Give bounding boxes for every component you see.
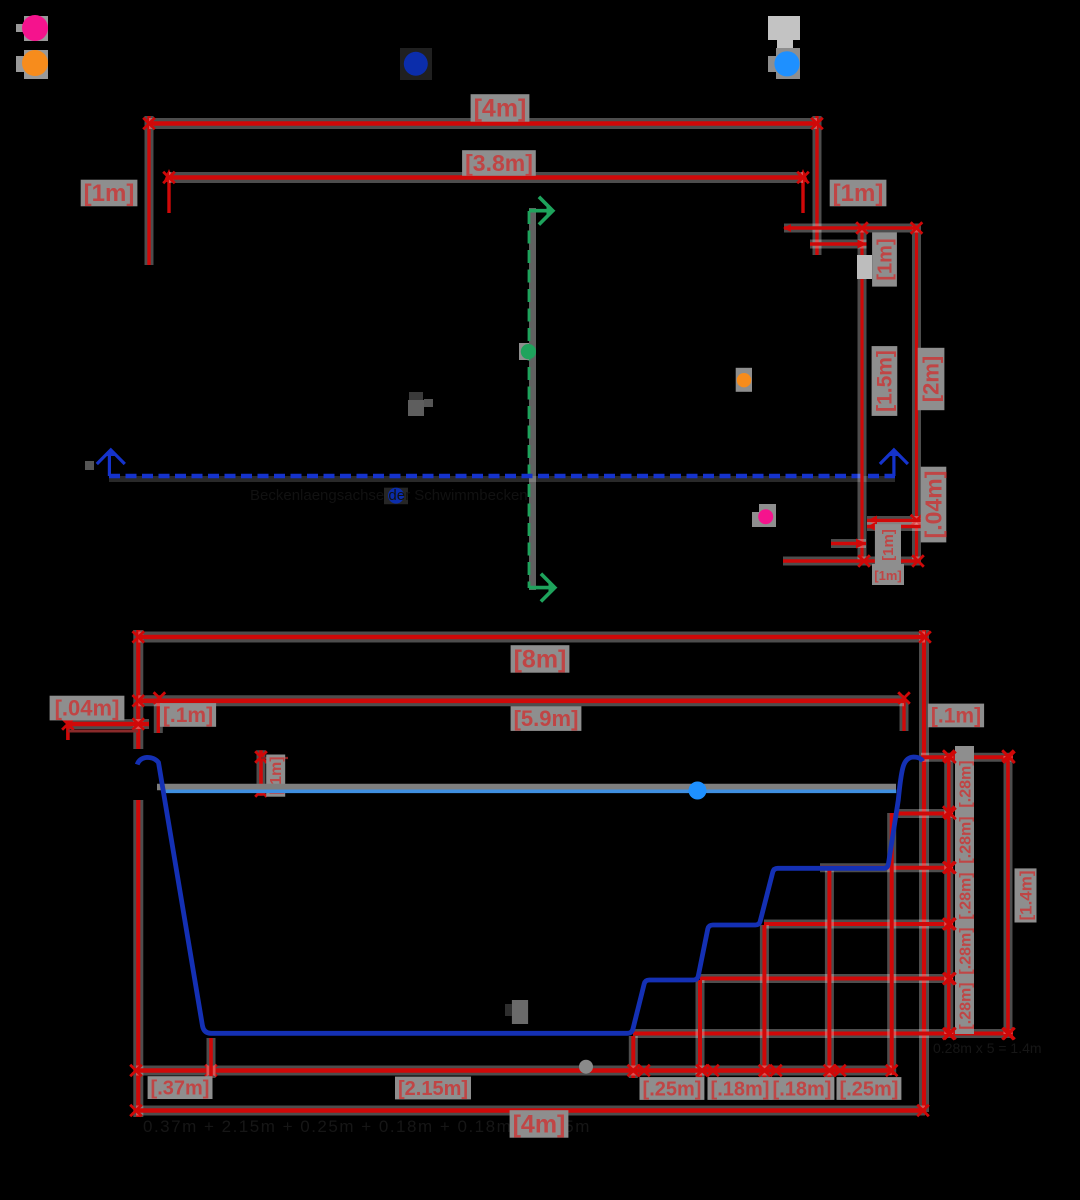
grid horizontal y=868 (tread 3) <box>820 863 953 872</box>
section dimension line [5.9m] y=700 <box>138 695 904 706</box>
grid horizontal y=1033 (floor level) <box>633 1029 1013 1038</box>
green node marker background <box>519 343 529 360</box>
orange point dot <box>737 373 751 387</box>
freeboard dim line x=261 <box>257 750 266 795</box>
gray anchor icon (plan) <box>408 392 433 416</box>
plan extension tick left inner x=169 with up arrow <box>164 169 175 213</box>
svg-text:[1m]: [1m] <box>880 529 897 561</box>
svg-text:[3.8m]: [3.8m] <box>465 150 533 176</box>
label [1m] plan left <box>81 180 138 208</box>
plan right dim line x=916 <box>912 226 921 562</box>
green section arrow top (points right) <box>529 197 556 225</box>
section short extension x=904 <box>900 700 909 731</box>
blue section arrow left (points up) <box>85 448 125 476</box>
svg-text:[.25m]: [.25m] <box>840 1078 899 1100</box>
svg-text:[8m]: [8m] <box>514 646 567 674</box>
water dot <box>689 782 707 800</box>
plan right horizontal y=526 <box>867 522 930 531</box>
bottom overall dimension line y=1110 <box>136 1106 925 1116</box>
arrows of [4m] <box>143 118 823 130</box>
small tick y=758 <box>261 757 288 759</box>
green centerline casing <box>529 208 536 590</box>
svg-text:[.28m]: [.28m] <box>958 816 975 863</box>
svg-text:[5.9m]: [5.9m] <box>514 706 579 731</box>
section extension left x=138 upper part <box>133 630 143 749</box>
grid horizontal y=757 (pool top level) <box>921 753 1013 762</box>
arrows y=228 <box>856 222 922 234</box>
grid vertical x=764 <box>760 925 769 1078</box>
label [1m] plan right <box>830 180 887 208</box>
small label box below y=561 <box>872 564 904 585</box>
label [.04m] section left <box>50 696 125 721</box>
svg-text:[.28m]: [.28m] <box>958 872 975 919</box>
rotated label [1m] plan right upper <box>872 232 897 286</box>
label [.25m] a <box>640 1077 705 1100</box>
green centerline dashed x=529 <box>528 211 531 588</box>
svg-text:[2m]: [2m] <box>919 356 944 402</box>
rotated label [.1m] freeboard <box>266 755 285 797</box>
leader line [.04m] y=724 <box>68 719 149 729</box>
section dimension line [8m] y=637 <box>138 632 925 643</box>
blue node dot (pool axis) <box>388 488 404 504</box>
label [.18m] b <box>770 1077 835 1100</box>
left arrow y=526 <box>867 522 877 532</box>
freeboard arrows <box>255 751 267 797</box>
legend water marker (light rect + blue dot) <box>768 16 800 79</box>
label [3.8m] <box>462 150 536 176</box>
svg-text:[1.4m]: [1.4m] <box>1016 870 1035 920</box>
small left arrow y=228 <box>783 224 791 232</box>
left arrow y=520 <box>867 516 877 526</box>
plan dimension line [4m] y=123 <box>149 118 817 129</box>
svg-text:[1m]: [1m] <box>874 568 901 583</box>
rotated label [1m] plan lower <box>875 524 901 566</box>
total height dim line x=1008 <box>1004 756 1013 1034</box>
svg-text:[.25m]: [.25m] <box>643 1078 702 1100</box>
rotated label [1.4m] total depth <box>1015 868 1037 922</box>
arrows on x=1008 <box>1002 750 1014 1039</box>
rotated label [.04m] plan <box>920 467 946 543</box>
svg-text:[.1m]: [.1m] <box>163 704 213 727</box>
svg-text:[.04m]: [.04m] <box>55 696 120 721</box>
thin second leader y=731 <box>68 730 138 733</box>
grid horizontal y=924 (tread 2) <box>764 920 953 929</box>
svg-text:[.18m]: [.18m] <box>773 1078 832 1100</box>
label [.1m] section left <box>160 703 216 727</box>
green section arrow bottom (points right) <box>529 574 558 602</box>
svg-text:[.28m]: [.28m] <box>958 982 975 1029</box>
svg-text:[4m]: [4m] <box>513 1111 566 1139</box>
plan extension tick right inner x=803 with up arrow <box>798 169 809 213</box>
svg-text:[2.15m]: [2.15m] <box>398 1078 468 1100</box>
label [5.9m] <box>511 706 582 731</box>
grid vertical x=829 <box>825 868 834 1078</box>
svg-text:[4m]: [4m] <box>474 95 527 123</box>
arrows of [5.9m] <box>133 692 910 706</box>
stacked rotated labels [.28m] background column <box>955 746 974 1034</box>
plan extension line left outer x=149 <box>145 116 154 265</box>
gray icon (section) <box>505 1000 528 1024</box>
bottom overall arrows <box>130 1105 929 1117</box>
chain arrows <box>130 1065 897 1077</box>
blue node marker background <box>384 488 408 505</box>
right arrow y=543 <box>856 539 866 549</box>
blue centerline casing <box>109 476 895 482</box>
blue centerline dashed y=476 <box>109 474 895 479</box>
svg-text:[.04m]: [.04m] <box>920 471 946 539</box>
left stem of [.04m] leader <box>66 714 70 740</box>
label [8m] <box>511 645 570 673</box>
pink point marker background <box>759 504 776 527</box>
rotated label [1.5m] <box>872 346 898 416</box>
rotated label [2m] <box>918 348 945 410</box>
green node dot <box>521 344 536 359</box>
legend orange marker <box>16 50 48 79</box>
svg-text:[1.5m]: [1.5m] <box>874 350 897 412</box>
plan extension line right outer x=817 <box>813 116 822 255</box>
blue section arrow right (points up) <box>880 448 908 476</box>
arrow x=916 y=520 <box>911 515 923 527</box>
small light box near x=862 <box>857 255 872 279</box>
plan right dim line x=862 <box>858 228 867 561</box>
grid horizontal y=813 <box>895 809 953 818</box>
svg-text:Beckenlaengsachse der Schwimmb: Beckenlaengsachse der Schwimmbecken <box>250 487 528 504</box>
label [.25m] b <box>837 1077 902 1100</box>
label [4m] bottom <box>510 1110 569 1138</box>
grid horizontal y=978 (tread 1) <box>700 974 953 983</box>
plan dimension line [3.8m] y=177 <box>169 172 803 183</box>
label [.18m] a <box>708 1077 773 1100</box>
arrows on x=949 <box>943 750 955 1039</box>
svg-text:[1m]: [1m] <box>874 238 896 280</box>
svg-text:[1m]: [1m] <box>833 180 884 207</box>
arrows of [3.8m] <box>163 172 809 184</box>
svg-text:[.28m]: [.28m] <box>958 927 975 974</box>
water line <box>164 789 897 793</box>
section extension left x=138 lower part <box>133 800 143 1117</box>
plan right horizontal y=520 <box>867 516 930 525</box>
water line casing <box>157 784 896 791</box>
right arrow y=244 <box>858 240 867 249</box>
label [.37m] <box>148 1076 213 1099</box>
rotated label [.28m] #1 <box>958 760 975 807</box>
svg-text:[.28m]: [.28m] <box>958 760 975 807</box>
svg-text:[.37m]: [.37m] <box>151 1077 210 1099</box>
svg-text:[.1m]: [.1m] <box>931 705 981 728</box>
label [4m] plan top <box>471 94 530 122</box>
orange point marker background <box>736 368 752 392</box>
label [.1m] section right <box>928 704 984 728</box>
plan right horizontal y=244 <box>810 240 867 249</box>
extension x=211 <box>207 1038 216 1078</box>
legend pink marker <box>16 15 48 41</box>
legend navy marker <box>400 48 432 80</box>
grid vertical x=892 <box>887 813 896 1075</box>
svg-text:[.18m]: [.18m] <box>711 1078 770 1100</box>
label [2.15m] <box>395 1077 471 1100</box>
rotated label [.28m] #3 <box>958 872 975 919</box>
chain dimension line y=1070 <box>136 1066 892 1076</box>
grid vertical x=700 <box>696 980 705 1078</box>
arrows on leader y=724 <box>62 718 144 730</box>
section extension right x=924 <box>919 630 929 1112</box>
svg-text:0.28m x 5 = 1.4m: 0.28m x 5 = 1.4m <box>933 1040 1042 1056</box>
rotated label [.28m] #5 <box>958 982 975 1029</box>
plan right horizontal y=543 <box>831 539 866 548</box>
step-height dim line x=949 <box>944 756 953 1034</box>
rotated label [.28m] #4 <box>958 927 975 974</box>
plan right horizontal y=228 <box>784 224 919 233</box>
grid vertical x=633 <box>629 1036 638 1078</box>
rotated label [.28m] #2 <box>958 816 975 863</box>
arrows y=561 <box>858 555 924 567</box>
section short extension x=158 <box>154 700 163 733</box>
pink point dot <box>758 509 773 524</box>
gray dot on chain line <box>579 1060 593 1074</box>
arrows of [8m] <box>133 631 931 643</box>
arrows where grid meets stacks <box>944 751 1015 1039</box>
svg-text:[1m]: [1m] <box>84 180 135 207</box>
plan right horizontal y=561 <box>783 557 920 566</box>
pool profile (cross-section) <box>137 757 923 1033</box>
